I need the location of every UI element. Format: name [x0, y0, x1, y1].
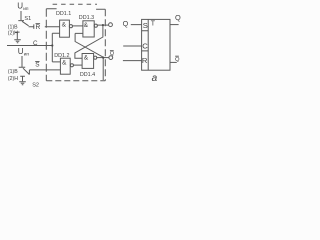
svg-text:&: & — [62, 21, 67, 28]
svg-text:&: & — [84, 55, 89, 62]
svg-text:C: C — [142, 41, 148, 50]
svg-text:Q: Q — [110, 51, 114, 57]
svg-text:(2)Н: (2)Н — [8, 30, 18, 36]
svg-text:DD1.4: DD1.4 — [80, 72, 95, 78]
svg-text:S1: S1 — [24, 16, 31, 22]
svg-text:S2: S2 — [32, 82, 39, 88]
svg-text:&: & — [84, 22, 89, 29]
svg-text:R: R — [142, 56, 148, 65]
svg-text:DD1.2: DD1.2 — [54, 53, 69, 59]
svg-text:а: а — [152, 73, 158, 84]
svg-text:S: S — [35, 61, 39, 68]
svg-text:DD1.1: DD1.1 — [56, 11, 71, 17]
svg-text:R: R — [36, 24, 41, 31]
svg-text:(1)В: (1)В — [8, 69, 18, 75]
svg-text:T: T — [151, 21, 156, 28]
svg-text:Q: Q — [123, 19, 129, 28]
svg-text:C: C — [33, 40, 38, 47]
svg-text:Q: Q — [175, 13, 181, 22]
svg-text:ип: ип — [23, 7, 29, 12]
svg-text:ип: ип — [24, 52, 30, 57]
svg-text:S: S — [143, 21, 148, 30]
svg-text:DD1.3: DD1.3 — [79, 15, 94, 21]
svg-text:(2)Н: (2)Н — [8, 76, 18, 82]
svg-text:Q: Q — [175, 57, 180, 63]
svg-text:&: & — [62, 60, 67, 67]
